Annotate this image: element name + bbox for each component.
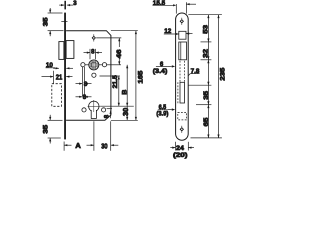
hidden slot dashed lines (178, 61, 185, 103)
hidden cylinder recess (dashed) (178, 112, 187, 120)
latch bolt head (outside plate) (59, 42, 64, 60)
svg-text:3: 3 (73, 0, 77, 7)
extension from right cylinder-flank hole (107, 108, 112, 110)
euro profile cylinder hole (88, 100, 101, 119)
svg-text:32: 32 (203, 49, 210, 58)
dimension 53 (207, 15, 209, 42)
dimension 8 (cylinder offset) (110, 111, 112, 119)
svg-text:21: 21 (56, 72, 63, 81)
svg-text:A: A (75, 141, 81, 150)
dimension 46 (top hole to follower) (118, 38, 120, 65)
vertical hole-column lines below left hole (82, 67, 84, 97)
dimension 24 (20) plate width (170, 142, 194, 151)
svg-text:6: 6 (160, 61, 164, 68)
svg-text:8: 8 (84, 81, 88, 88)
label 7.8 (188, 74, 199, 76)
svg-text:(3.9): (3.9) (156, 111, 168, 118)
svg-text:15.5: 15.5 (153, 0, 166, 7)
deadbolt cutout (179, 42, 187, 60)
extension case top right (111, 30, 138, 32)
hole below follower (92, 73, 96, 77)
svg-text:B: B (122, 89, 129, 94)
extension case bottom right (111, 119, 138, 121)
svg-text:21.5: 21.5 (112, 75, 119, 89)
narrow lower cutout (180, 82, 185, 103)
latch cutout (179, 31, 186, 39)
left fixing hole beside follower (81, 63, 85, 67)
dimension 21 (deadbolt projection) (42, 71, 73, 84)
svg-text:10: 10 (46, 62, 53, 69)
dimension B (follower to cylinder centers) (126, 65, 128, 106)
right fixing hole beside follower (102, 63, 106, 67)
faceplate outline with rounded ends (176, 13, 189, 140)
label 6.5 (3.9) (158, 109, 172, 111)
svg-text:65: 65 (203, 117, 210, 126)
dimension 32 (207, 42, 209, 60)
dimension 10 (latch projection) (46, 67, 74, 70)
dimension 8 row 2 (76, 96, 92, 98)
dimension 35 bottom (case bottom to plate end) (48, 115, 63, 144)
svg-text:12: 12 (164, 28, 171, 35)
dimension 8 row 1 (76, 83, 92, 85)
svg-text:46: 46 (116, 49, 123, 58)
dimension 8 (follower square) above follower (84, 49, 103, 59)
faceplate thickness stub for dim 3 (64, 1, 66, 10)
cylinder flanking hole right (102, 108, 106, 112)
dimension 165 (case height) (135, 31, 137, 121)
extension: top hole to follower center line (107, 64, 121, 66)
svg-text:30: 30 (121, 108, 130, 116)
dimension 65 (207, 105, 209, 138)
right chain extension lines (188, 15, 222, 138)
dimension 12 (latch cutout width) (164, 33, 193, 35)
extension from hole below follower (100, 75, 120, 77)
unlabeled middle segment with arrows (207, 60, 209, 85)
svg-text:24: 24 (176, 145, 184, 152)
latch bolt body (inside case) (66, 41, 74, 59)
svg-text:30: 30 (101, 141, 107, 150)
dimension A (backset) and 30 at bottom (64, 121, 118, 151)
dimension 235 (plate length) (218, 15, 220, 138)
bottom screw hole (180, 126, 184, 133)
dimension 15.5 (153, 2, 197, 13)
dimension 30 (cylinder to case bottom) (126, 106, 128, 120)
svg-text:165: 165 (138, 70, 145, 83)
left view: faceplate edge-on (64, 13, 66, 140)
dimension 35 top (plate end to case top) (48, 8, 64, 36)
lock case outline (66, 31, 111, 121)
svg-text:(20): (20) (173, 152, 187, 159)
top screw hole (180, 18, 184, 25)
dimension 3 (plate thickness) (59, 4, 73, 6)
deadbolt thrown position (hidden, dashed) (52, 84, 62, 107)
label 6 (3.4) (156, 65, 172, 67)
svg-text:8: 8 (83, 94, 87, 101)
svg-text:53: 53 (203, 25, 210, 34)
svg-text:8: 8 (91, 49, 95, 56)
svg-text:35: 35 (42, 124, 49, 133)
svg-text:(3.4): (3.4) (153, 68, 168, 75)
case internal line at top screw level (96, 37, 121, 39)
follower hub (knurled boss) (85, 59, 102, 71)
svg-text:35: 35 (42, 17, 49, 26)
case top fixing screw hole (92, 34, 96, 41)
svg-text:35: 35 (203, 91, 210, 100)
deadbolt inner edge (180, 42, 182, 60)
svg-text:235: 235 (219, 67, 226, 80)
dimension 35 (207, 85, 209, 105)
dimension 21.5 (follower to cylinder) (118, 76, 120, 106)
svg-text:7.8: 7.8 (191, 68, 200, 75)
cylinder flanking hole left (82, 108, 86, 112)
extension cylinder center line (100, 105, 134, 107)
svg-text:8: 8 (104, 114, 111, 118)
tick mark across plate (61, 20, 67, 22)
